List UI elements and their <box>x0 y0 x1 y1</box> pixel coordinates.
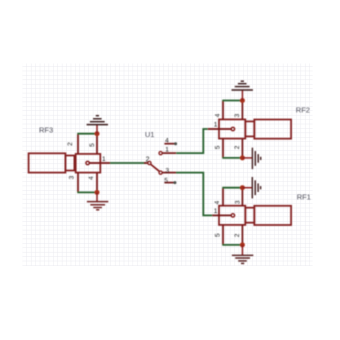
svg-text:3: 3 <box>234 113 241 117</box>
svg-text:1: 1 <box>214 122 218 129</box>
junction RF3 top <box>95 131 100 136</box>
junction RF3 bottom <box>95 190 100 195</box>
connector RF2 <box>219 119 291 138</box>
U1 pin 2 <box>144 157 151 165</box>
svg-text:U1: U1 <box>145 130 155 139</box>
net wire RF3 pin1 to U1 pin2 <box>110 162 146 164</box>
RF1 pin 5 <box>214 225 223 245</box>
U1 lever arm <box>151 164 160 171</box>
svg-text:2: 2 <box>234 233 241 237</box>
connector RF1 <box>219 206 291 225</box>
U1 pin 4 <box>164 138 177 146</box>
wire RF3 pins 3-4 bottom loop <box>77 191 97 193</box>
connector RF3 <box>29 153 101 172</box>
wire RF2 pins 4-3 top loop <box>222 100 242 102</box>
svg-text:4: 4 <box>214 200 221 204</box>
svg-text:RF2: RF2 <box>296 105 310 114</box>
RF2 pin 5 <box>215 139 224 158</box>
svg-text:5: 5 <box>214 233 221 237</box>
junction RF1 bottom <box>240 242 245 247</box>
ground above RF3 <box>87 116 108 134</box>
svg-text:1: 1 <box>102 156 106 163</box>
RF3 pin 2 <box>67 134 78 154</box>
ground right of RF1 <box>242 177 260 198</box>
wire RF3 pins 2-5 top loop <box>77 133 97 135</box>
RF3 pin 3 <box>69 173 79 193</box>
RF3 pin 5 <box>89 134 97 154</box>
svg-text:2: 2 <box>146 157 150 164</box>
U1 pin 3 <box>159 167 176 174</box>
wire RF2 pins 5-2 bottom loop <box>222 157 242 159</box>
svg-text:4: 4 <box>88 176 95 180</box>
svg-text:RF3: RF3 <box>39 125 53 134</box>
svg-text:5: 5 <box>215 145 222 149</box>
svg-text:4: 4 <box>215 113 222 117</box>
svg-text:2: 2 <box>234 145 241 149</box>
svg-text:3: 3 <box>235 200 242 204</box>
net wire U1 pin1 to RF2 pin1 <box>176 129 208 153</box>
net wire U1 pin3 to RF1 pin1 <box>176 173 212 216</box>
junction RF1 top <box>240 185 245 190</box>
svg-text:3: 3 <box>69 175 76 179</box>
junction RF2 bottom <box>240 155 245 160</box>
svg-text:2: 2 <box>67 142 74 146</box>
ground below RF3 <box>87 192 108 209</box>
wire RF1 pins 4-3 top loop <box>222 187 242 189</box>
svg-text:5: 5 <box>164 177 168 184</box>
ground above RF2 <box>232 81 253 100</box>
junction RF2 top <box>240 98 245 103</box>
U1 pin 1 <box>159 146 176 154</box>
RF2 pin 3 <box>234 101 243 120</box>
RF2 pin 2 <box>234 139 243 158</box>
RF1 pin 4 <box>214 188 223 206</box>
svg-text:RF1: RF1 <box>297 192 311 201</box>
RF1 pin 3 <box>235 188 243 206</box>
RF1 pin 1 <box>212 208 231 215</box>
RF3 pin 1 <box>89 156 110 163</box>
RF2 pin 1 <box>208 122 231 129</box>
svg-text:3: 3 <box>166 167 170 174</box>
U1 pin 5 <box>164 177 176 184</box>
RF3 pin 4 <box>88 173 97 193</box>
svg-text:1: 1 <box>165 146 169 153</box>
ground below RF1 <box>232 245 253 264</box>
wire RF1 pins 5-2 bottom loop <box>222 244 242 246</box>
svg-text:1: 1 <box>214 208 218 215</box>
RF1 pin 2 <box>234 225 243 245</box>
ground right of RF2 <box>242 148 260 169</box>
RF2 pin 4 <box>215 101 223 120</box>
svg-text:4: 4 <box>165 138 169 145</box>
svg-text:5: 5 <box>89 143 96 147</box>
